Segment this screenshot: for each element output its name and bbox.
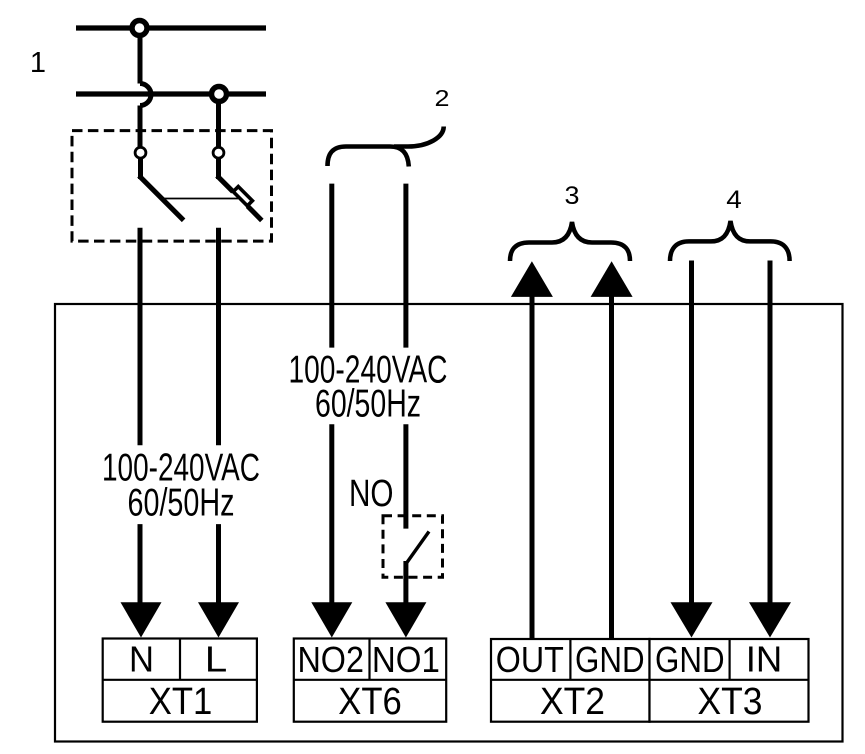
svg-text:L: L	[205, 638, 228, 679]
svg-text:2: 2	[435, 85, 450, 111]
svg-text:NO1: NO1	[372, 639, 440, 680]
svg-text:60/50Hz: 60/50Hz	[315, 382, 421, 425]
wire IN	[768, 261, 773, 606]
breaker linkage bar	[163, 198, 238, 200]
terminal block XT1 outline	[103, 639, 257, 722]
terminal XT1 N/L divider	[179, 639, 181, 680]
brace 2 cusp	[394, 127, 444, 147]
svg-text:GND: GND	[575, 639, 645, 680]
svg-text:GND: GND	[655, 639, 725, 680]
svg-text:XT3: XT3	[698, 681, 763, 723]
terminal block XT6 outline	[294, 639, 446, 722]
svg-text:NO2: NO2	[297, 639, 364, 680]
svg-text:1: 1	[30, 47, 46, 79]
svg-text:60/50Hz: 60/50Hz	[128, 482, 235, 525]
wire NO2 upper	[329, 184, 334, 348]
relay contact blade	[406, 532, 429, 564]
wire GND XT3	[689, 261, 694, 606]
device enclosure box	[55, 304, 843, 742]
wire NO1 upper	[403, 184, 408, 348]
svg-text:3: 3	[565, 182, 580, 210]
wire hop over bottom line	[140, 84, 151, 106]
svg-text:XT6: XT6	[338, 681, 402, 723]
arrow down GND XT3	[671, 602, 713, 637]
wire OUT	[530, 295, 535, 639]
wire from bottom line node down to contact 2	[216, 100, 221, 149]
svg-text:NO: NO	[349, 473, 394, 515]
breaker blade 2 upper segment	[217, 176, 233, 192]
wire from top line node down to breaker pole 1	[138, 34, 143, 84]
arrow down L	[198, 602, 239, 637]
brace 3	[510, 222, 630, 261]
wire NO1 lower	[403, 561, 408, 605]
node junction circle on top line	[132, 21, 147, 36]
wire L lower	[216, 524, 221, 605]
mains line bottom	[76, 91, 266, 96]
svg-text:OUT: OUT	[496, 639, 564, 680]
wire GND XT2	[609, 295, 614, 639]
wire NO1 into relay contact	[403, 424, 408, 528]
terminal XT3 row divider	[650, 679, 809, 681]
wire breaker pole 1 output	[138, 228, 143, 446]
wire N lower	[138, 524, 143, 605]
arrow down NO1	[385, 602, 426, 637]
terminal XT3 GND/IN divider	[728, 639, 730, 680]
arrow down N	[121, 602, 162, 637]
breaker contact circle 1	[135, 147, 146, 158]
svg-text:4: 4	[726, 186, 742, 214]
terminal XT6 row divider	[294, 679, 446, 681]
terminal XT6 NO2/NO1 divider	[368, 639, 370, 680]
wire contact 2 to blade 2	[216, 158, 221, 179]
wire contact 1 to blade 1	[138, 158, 143, 179]
svg-text:IN: IN	[746, 638, 783, 679]
wire NO2 lower	[329, 424, 334, 605]
arrow down IN	[749, 602, 791, 637]
relay contact NO dashed box	[383, 516, 443, 578]
breaker thermal element	[233, 187, 252, 206]
wire breaker pole 2 output	[216, 228, 221, 446]
terminal block XT3 outline	[650, 639, 809, 722]
svg-text:XT2: XT2	[540, 681, 605, 723]
svg-text:N: N	[129, 638, 154, 679]
mains line top	[76, 25, 266, 30]
terminal block XT2 outline	[491, 639, 650, 722]
brace 4	[670, 221, 790, 261]
brace 2 main	[328, 147, 409, 167]
terminal XT2 row divider	[491, 679, 650, 681]
terminal XT1 row divider	[103, 679, 257, 681]
arrow down NO2	[311, 602, 352, 637]
node junction circle on bottom line	[212, 87, 227, 102]
arrow up OUT	[511, 261, 553, 297]
breaker dashed box	[72, 131, 272, 242]
arrow up GND	[591, 261, 633, 297]
wire below hop to contact 1	[138, 106, 143, 150]
breaker blade 1	[139, 176, 184, 221]
svg-text:XT1: XT1	[149, 681, 213, 723]
terminal XT2 OUT/GND divider	[569, 639, 571, 680]
breaker contact circle 2	[213, 147, 224, 158]
breaker blade 2 lower segment	[248, 206, 262, 220]
